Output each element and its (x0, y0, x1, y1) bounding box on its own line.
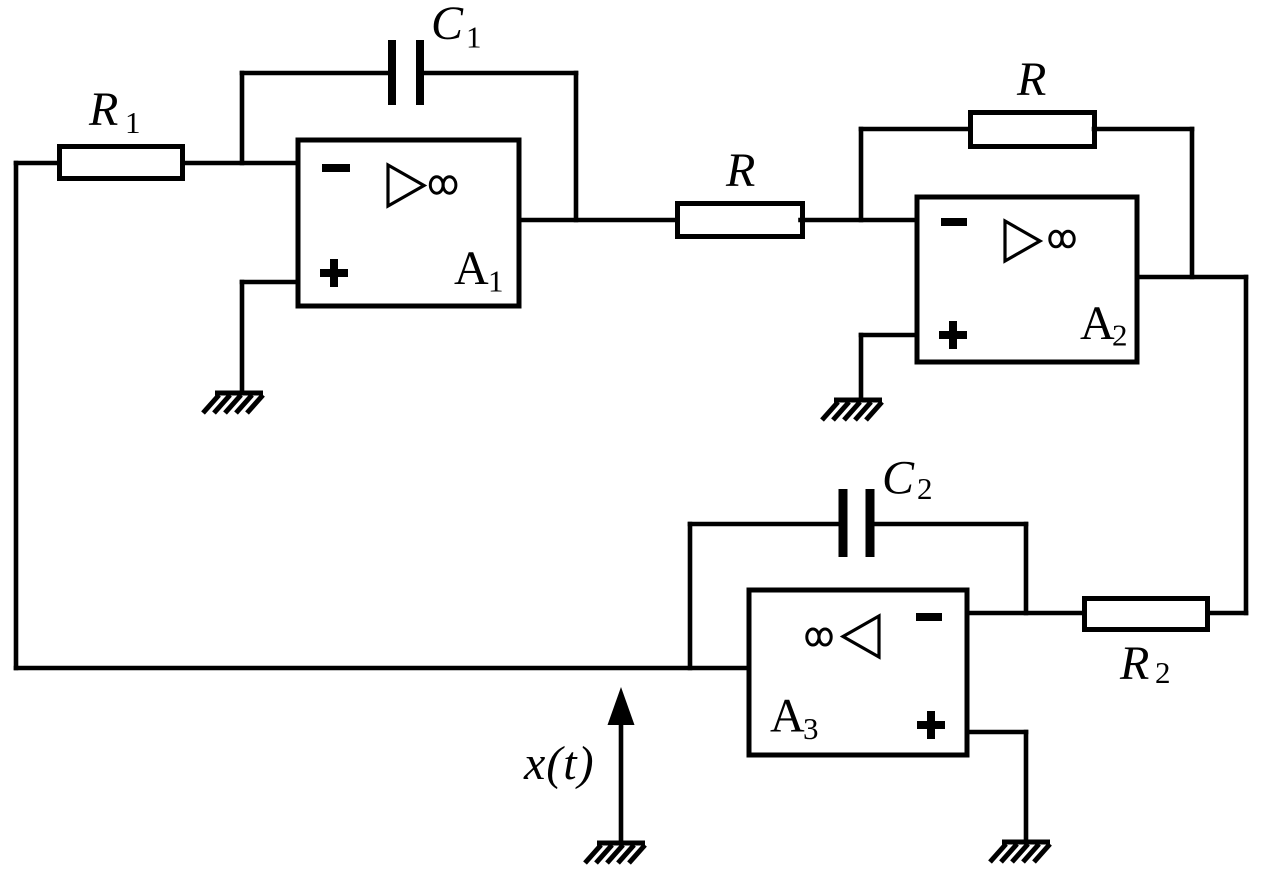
ground below A3 plus (990, 842, 1050, 862)
resistor R2 (1085, 599, 1208, 630)
capacitor C1 (392, 40, 420, 105)
input source x(t) arrowhead (608, 687, 635, 725)
A2 infinity symbol (1050, 231, 1074, 247)
wire A2 output right vertical down to R2 (1244, 277, 1249, 613)
wire A2 feedback left vertical (859, 129, 864, 220)
svg-text:A: A (454, 242, 489, 295)
A2 triangle (1005, 221, 1040, 261)
wire C1 left vertical (240, 73, 245, 163)
wire A1 plus input lead (242, 280, 298, 285)
label R middle (725, 144, 755, 197)
label A2 (1080, 297, 1128, 353)
wire C1 top left segment (242, 71, 390, 76)
resistor R1 (60, 147, 183, 179)
A1 minus input symbol (322, 164, 350, 172)
svg-text:2: 2 (917, 471, 933, 506)
svg-text:C: C (882, 452, 915, 505)
ground below A1 (203, 393, 263, 413)
svg-text:1: 1 (125, 105, 141, 140)
A2 plus input symbol (939, 321, 967, 349)
op-amp A3 box (749, 590, 967, 755)
wire A2 feedback top right segment (1094, 127, 1192, 132)
svg-text:1: 1 (466, 20, 482, 55)
wire A1 output (519, 218, 677, 223)
wire left vertical feedback from A3 output up to R1 input (14, 163, 19, 668)
wire C2 top left segment (690, 522, 841, 527)
A3 triangle (mirrored, points left) (843, 616, 879, 657)
ground below A2 (822, 400, 882, 420)
resistor R feedback (971, 113, 1095, 147)
ground below x(t) source (585, 843, 645, 863)
input source x(t) arrow line (619, 718, 624, 841)
wire A1 plus to ground vertical (240, 282, 245, 389)
capacitor C2 (843, 489, 870, 557)
op-amp A1 box (298, 140, 519, 306)
svg-text:R: R (88, 83, 118, 136)
svg-text:3: 3 (803, 711, 819, 746)
svg-text:R: R (1016, 53, 1046, 106)
svg-text:1: 1 (488, 264, 504, 299)
wire A2 feedback right vertical (1190, 129, 1195, 277)
wire R1 left lead (16, 161, 59, 166)
svg-text:2: 2 (1112, 318, 1128, 353)
A3 plus input symbol (917, 711, 945, 739)
label C1 (431, 0, 482, 55)
A2 minus input symbol (941, 218, 967, 226)
wire R2 right lead (1208, 611, 1247, 616)
wire A2 plus input lead (861, 333, 917, 338)
svg-text:2: 2 (1155, 655, 1171, 690)
wire A3 plus input lead (967, 730, 1026, 735)
A1 infinity symbol (430, 177, 456, 193)
svg-text:A: A (1080, 297, 1115, 350)
wire C2 top right segment (872, 522, 1026, 527)
A3 minus input symbol (916, 613, 942, 621)
wire C2 right vertical (1024, 524, 1029, 613)
label x(t) (523, 737, 595, 790)
label R2 (1119, 637, 1171, 690)
wire C1 top right segment (422, 71, 576, 76)
op-amp A2 box (917, 197, 1137, 362)
svg-text:R: R (725, 144, 755, 197)
svg-text:C: C (431, 0, 464, 50)
wire bottom horizontal from left vertical to A3 output (16, 666, 748, 671)
wire A2 output (1137, 275, 1246, 280)
wire A2 feedback top left segment (861, 127, 970, 132)
wire R2 left lead to A3 minus (967, 611, 1085, 616)
A1 triangle (388, 165, 424, 206)
label R feedback (1016, 53, 1046, 106)
label R1 (88, 83, 141, 140)
wire C1 right vertical down to A1 output (574, 73, 579, 220)
resistor R middle (678, 204, 803, 237)
label A1 (454, 242, 504, 299)
label A3 (770, 690, 819, 747)
wire R1 right lead to A1 minus input (183, 161, 299, 166)
svg-text:A: A (770, 690, 805, 743)
svg-text:R: R (1119, 637, 1149, 690)
wire A3 plus to ground vertical (1024, 732, 1029, 838)
wire R middle to A2 minus input (801, 218, 918, 223)
A1 plus input symbol (320, 259, 348, 287)
wire A2 plus to ground vertical (859, 335, 864, 396)
wire C2 left vertical down to bottom wire (688, 524, 693, 668)
label C2 (882, 452, 933, 507)
svg-text:x(t): x(t) (523, 737, 595, 790)
A3 infinity symbol (807, 629, 831, 645)
